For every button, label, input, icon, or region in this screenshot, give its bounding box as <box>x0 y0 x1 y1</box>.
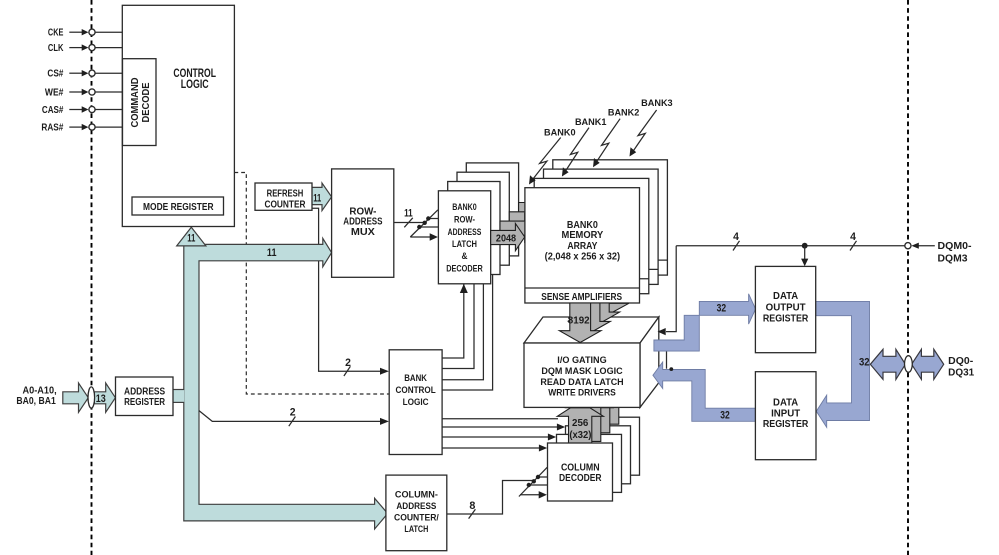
svg-text:REGISTER: REGISTER <box>763 419 809 430</box>
left boundary dashed line <box>91 0 93 555</box>
BANK2 column decoder box <box>566 426 631 484</box>
svg-text:BANK0: BANK0 <box>544 127 576 137</box>
svg-text:2: 2 <box>345 357 351 369</box>
svg-text:INPUT: INPUT <box>771 408 800 419</box>
BANK1 lightning bolt <box>562 117 607 176</box>
svg-text:BANK3: BANK3 <box>641 98 673 108</box>
ADDRESS REGISTER box <box>116 377 174 416</box>
svg-text:LOGIC: LOGIC <box>403 397 429 407</box>
blue read path I/O gating to data output register (32) <box>654 294 756 351</box>
svg-text:4: 4 <box>733 231 739 243</box>
svg-text:COLUMN: COLUMN <box>561 462 600 473</box>
BANK3 row-address latch box <box>466 163 518 256</box>
gray arrow 256 bank1 <box>566 393 612 442</box>
gray arrow 8192 bank3 fragment <box>587 303 629 314</box>
label DQ0-DQ31 <box>948 356 975 378</box>
right boundary dashed line <box>907 0 909 555</box>
svg-text:ROW-: ROW- <box>454 214 475 224</box>
svg-text:MEMORY: MEMORY <box>562 230 604 241</box>
gray arrow 256 bank3 <box>584 376 630 425</box>
svg-text:&: & <box>462 251 468 261</box>
input signal CKE <box>48 28 122 39</box>
teal arrow into control logic <box>177 227 206 246</box>
gray arrow 8192 bank0 <box>559 303 601 343</box>
svg-text:DECODER: DECODER <box>559 473 602 484</box>
svg-text:A0-A10,: A0-A10, <box>23 386 57 397</box>
BANK0 memory array box <box>525 188 640 303</box>
BANK2 row-address latch box <box>457 172 509 265</box>
svg-text:REGISTER: REGISTER <box>763 314 809 325</box>
svg-text:(x32): (x32) <box>569 430 591 441</box>
svg-text:DECODE: DECODE <box>141 82 152 123</box>
blue bidirectional DQ arrow left of boundary <box>870 349 905 379</box>
boundary ellipse on address bus <box>88 387 95 408</box>
svg-text:11: 11 <box>404 208 413 220</box>
svg-text:WE#: WE# <box>45 87 64 98</box>
svg-text:BA0, BA1: BA0, BA1 <box>16 396 56 407</box>
svg-text:DATA: DATA <box>773 397 798 408</box>
input signal WE# <box>45 87 122 98</box>
svg-text:DATA: DATA <box>773 291 798 302</box>
svg-text:CONTROL: CONTROL <box>396 385 436 395</box>
blue path data output register to data input register <box>816 301 870 427</box>
svg-text:LATCH: LATCH <box>452 239 477 249</box>
DATA OUTPUT REGISTER box <box>755 266 815 352</box>
svg-text:8: 8 <box>469 500 475 512</box>
svg-text:BANK0: BANK0 <box>452 202 477 212</box>
wire refresh counter to bank control logic (2) <box>311 208 389 376</box>
CONTROL LOGIC box <box>122 5 234 226</box>
svg-text:13: 13 <box>96 393 106 405</box>
svg-text:CLK: CLK <box>48 43 64 54</box>
MODE REGISTER box <box>132 197 224 215</box>
svg-text:DQM3: DQM3 <box>938 254 969 265</box>
COLUMN-ADDRESS COUNTER/LATCH box <box>386 475 447 551</box>
svg-text:BANK2: BANK2 <box>608 108 640 118</box>
teal arrow refresh counter to mux <box>312 183 332 211</box>
teal address bus main path <box>184 238 388 529</box>
wire link read bar to write shaft <box>667 352 674 372</box>
input signal CAS# <box>42 105 122 116</box>
wires bank control logic to column decoders <box>442 419 565 452</box>
gray arrow 2048 bank2 <box>509 205 543 232</box>
svg-text:32: 32 <box>717 303 727 315</box>
dashed connector control logic to bank control logic <box>234 173 389 395</box>
svg-text:READ DATA LATCH: READ DATA LATCH <box>540 377 624 387</box>
BANK2 lightning bolt <box>593 108 639 168</box>
svg-text:ADDRESS: ADDRESS <box>448 227 482 237</box>
svg-text:11: 11 <box>267 247 277 259</box>
svg-text:CAS#: CAS# <box>42 105 64 116</box>
svg-text:(2,048 x 256 x 32): (2,048 x 256 x 32) <box>545 252 621 263</box>
label 11 into control logic <box>187 233 195 245</box>
label 11 on horizontal bus <box>267 247 277 259</box>
blue write path data input register to I/O gating (32) <box>653 362 756 421</box>
input signal RAS# <box>41 122 122 133</box>
BANK1 memory array box <box>534 178 649 293</box>
BANK0 column decoder box <box>548 443 613 501</box>
teal stub address register to bus <box>173 390 185 403</box>
blue bidirectional DQ arrow right of boundary <box>912 349 944 379</box>
gray arrow 2048 bank3 <box>519 196 553 223</box>
DQM wire with junction <box>658 231 905 335</box>
I/O GATING 3D box <box>524 317 659 407</box>
label 13 on input arrow <box>96 393 106 405</box>
svg-text:WRITE DRIVERS: WRITE DRIVERS <box>548 387 616 397</box>
svg-text:32: 32 <box>720 409 730 421</box>
svg-text:11: 11 <box>313 192 321 204</box>
svg-text:ADDRESS: ADDRESS <box>396 501 436 511</box>
wire mux to row latch fan (11) <box>394 208 439 241</box>
wires bank control logic to row latches <box>442 275 493 390</box>
svg-text:COMMAND: COMMAND <box>130 78 141 128</box>
svg-text:2: 2 <box>290 407 296 419</box>
svg-text:CKE: CKE <box>48 28 64 39</box>
BANK CONTROL LOGIC box <box>389 350 442 455</box>
gray arrow 2048 bank0 <box>491 224 525 251</box>
svg-text:LOGIC: LOGIC <box>181 79 209 91</box>
BANK1 column decoder box <box>557 434 622 492</box>
svg-text:2048: 2048 <box>496 234 517 245</box>
svg-text:DQM MASK LOGIC: DQM MASK LOGIC <box>541 366 623 376</box>
svg-text:11: 11 <box>187 233 195 245</box>
BANK2 memory array box <box>544 169 659 284</box>
svg-text:DQM0-: DQM0- <box>938 241 972 252</box>
label 11 refresh to mux <box>313 192 321 204</box>
teal input arrow A0-A10 left of boundary <box>63 383 89 412</box>
svg-text:REGISTER: REGISTER <box>124 397 165 408</box>
gray arrow 8192 bank1 fragment <box>569 303 611 333</box>
gray arrow 8192 bank2 fragment <box>578 303 620 324</box>
svg-text:RAS#: RAS# <box>41 122 64 133</box>
gray arrow 256 bank2 <box>575 384 621 433</box>
svg-text:ARRAY: ARRAY <box>567 241 597 252</box>
svg-text:CS#: CS# <box>47 69 64 80</box>
svg-text:COUNTER/: COUNTER/ <box>394 512 439 522</box>
BANK3 lightning bolt <box>630 98 673 157</box>
input signal CS# <box>47 69 122 80</box>
svg-text:BANK: BANK <box>404 373 427 383</box>
label A0-A10, BA0, BA1 <box>16 386 57 408</box>
DQM input circle and arrow <box>905 241 972 265</box>
svg-text:MUX: MUX <box>351 227 376 238</box>
svg-text:DQ31: DQ31 <box>948 367 975 378</box>
wire address bus to bank control logic (2) <box>199 407 389 427</box>
COMMAND DECODE box <box>123 59 157 146</box>
wire counter/latch to column decoder fan (8) <box>447 467 548 518</box>
svg-text:LATCH: LATCH <box>404 524 428 534</box>
svg-text:COLUMN-: COLUMN- <box>395 489 438 499</box>
svg-text:I/O GATING: I/O GATING <box>557 355 606 365</box>
BANK0 lightning bolt <box>529 127 576 184</box>
BANK0 row-address latch & decoder box <box>438 191 490 284</box>
svg-text:SENSE AMPLIFIERS: SENSE AMPLIFIERS <box>541 292 622 303</box>
DATA INPUT REGISTER box <box>755 372 816 460</box>
teal input arrow 13 right of boundary <box>94 383 115 412</box>
boundary ellipse on DQ bus <box>905 356 913 373</box>
svg-text:COUNTER: COUNTER <box>264 199 305 210</box>
svg-text:DQ0-: DQ0- <box>948 356 973 367</box>
svg-text:OUTPUT: OUTPUT <box>766 303 806 314</box>
svg-text:4: 4 <box>850 231 856 243</box>
REFRESH COUNTER box <box>255 183 312 210</box>
BANK3 column decoder box <box>575 417 640 475</box>
gray arrow 256 bank0 <box>557 408 603 450</box>
svg-text:MODE REGISTER: MODE REGISTER <box>143 202 214 213</box>
BANK3 memory array box <box>553 160 668 275</box>
svg-text:8192: 8192 <box>568 316 590 327</box>
svg-text:BANK1: BANK1 <box>575 117 607 127</box>
svg-text:DECODER: DECODER <box>446 263 483 273</box>
svg-text:32: 32 <box>859 356 870 368</box>
svg-text:REFRESH: REFRESH <box>267 189 304 200</box>
svg-text:256: 256 <box>572 418 589 429</box>
BANK1 row-address latch box <box>448 182 500 275</box>
input signal CLK <box>48 43 122 54</box>
ROW-ADDRESS MUX box <box>332 169 394 277</box>
gray arrow 2048 bank1 <box>500 214 534 241</box>
